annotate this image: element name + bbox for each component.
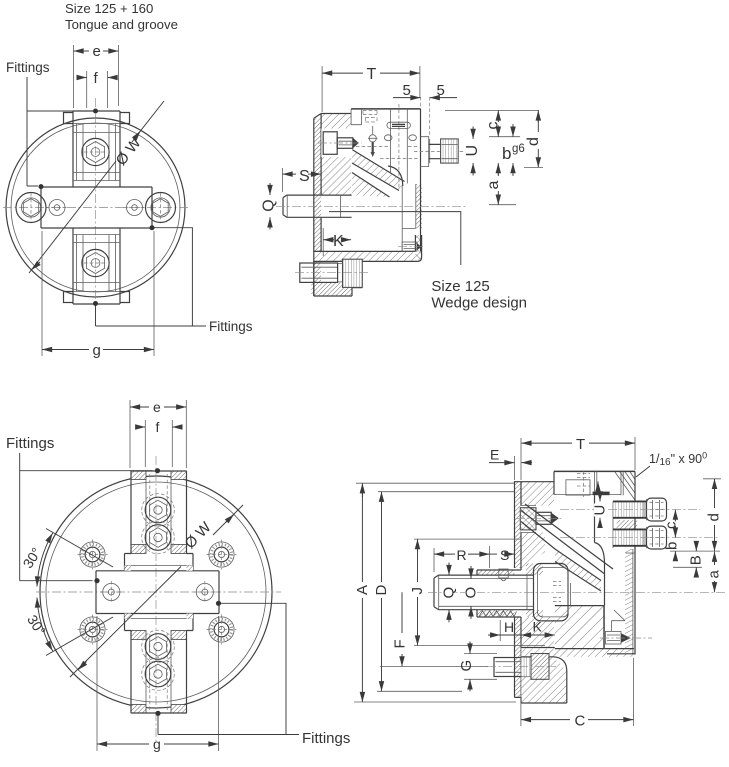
left small port bbox=[100, 581, 123, 603]
rod boss outline bbox=[477, 570, 521, 617]
chuck inner circle bbox=[11, 123, 180, 292]
dimension H bbox=[488, 619, 521, 641]
adapter hatch upper bbox=[521, 482, 554, 506]
adapter top edge bbox=[321, 113, 351, 115]
horizontal centerline bbox=[36, 591, 281, 593]
Fittings label bottom with leaders bbox=[155, 601, 350, 747]
piston hatch bits around nut bbox=[526, 564, 543, 576]
dimension D bbox=[373, 492, 514, 692]
chamfer fan top-right bbox=[615, 471, 636, 500]
svg-text:Tongue and groove: Tongue and groove bbox=[65, 17, 178, 32]
jaw slot stadium bbox=[387, 122, 411, 128]
dimension d bbox=[703, 479, 723, 551]
svg-text:b: b bbox=[664, 542, 681, 550]
chuck outer circle bbox=[40, 476, 272, 708]
vertical centerline bbox=[95, 98, 97, 318]
dimension e bbox=[130, 399, 186, 468]
dimension C bbox=[521, 641, 634, 730]
Fittings label top-left with leaders bbox=[6, 60, 98, 189]
wedge bar stub shaft bbox=[429, 144, 441, 158]
diameter W callout line bbox=[29, 101, 164, 273]
dimension T bbox=[322, 66, 420, 112]
svg-text:J: J bbox=[409, 587, 426, 595]
dimension F bbox=[380, 592, 488, 666]
svg-text:e: e bbox=[93, 43, 101, 60]
dimension c bbox=[445, 110, 539, 136]
dimension S bbox=[283, 168, 322, 192]
dimension T bbox=[521, 436, 635, 480]
bottom jaw bbox=[64, 228, 130, 304]
dimension E bbox=[489, 447, 532, 481]
Fittings label bottom-right with leaders bbox=[93, 225, 253, 334]
wedge bar threaded end bbox=[441, 139, 459, 163]
svg-text:F: F bbox=[392, 639, 409, 648]
guideway band bbox=[96, 571, 219, 614]
svg-text:Q: Q bbox=[441, 587, 458, 599]
svg-text:30°: 30° bbox=[19, 545, 44, 571]
svg-text:Fittings: Fittings bbox=[6, 435, 54, 452]
flange plate bbox=[515, 481, 522, 697]
chamfer note 1/16 x 90 bbox=[636, 451, 707, 478]
body top edge bbox=[351, 108, 420, 110]
flange foot outline bbox=[314, 261, 363, 296]
jaw guide hatch strip bbox=[416, 184, 422, 228]
between screws hatch bbox=[617, 520, 638, 532]
right mounting screw with hex socket bbox=[146, 193, 176, 223]
dimension B bbox=[673, 544, 705, 576]
svg-text:Fittings: Fittings bbox=[209, 319, 253, 334]
wedge body hatch band bbox=[555, 549, 601, 591]
jaw slot walls bbox=[391, 109, 408, 184]
bottom jaw outline bbox=[125, 614, 194, 714]
bottom plate outline bbox=[314, 235, 422, 261]
30 degree bolt lower-left bbox=[78, 615, 108, 645]
svg-text:H: H bbox=[504, 619, 514, 635]
dimension f bbox=[136, 419, 183, 467]
flange plate hatch bbox=[515, 481, 522, 568]
upper mounting bolt in adapter bbox=[318, 129, 362, 158]
dimension K bbox=[323, 228, 351, 256]
flange plate hatch bbox=[314, 118, 321, 295]
front face bbox=[634, 471, 636, 654]
upper mounting bolt bbox=[516, 506, 563, 533]
rod boss hatch bbox=[477, 570, 515, 575]
dimension e bbox=[74, 43, 119, 108]
horizontal centerline bbox=[3, 207, 190, 209]
bottom jaw dark corner inserts bbox=[131, 705, 146, 714]
wedge hatched band bbox=[352, 150, 405, 191]
dimension b g6 bbox=[502, 124, 525, 176]
top jaw outline bbox=[125, 471, 194, 571]
dimension d bbox=[524, 110, 543, 167]
svg-text:S: S bbox=[299, 168, 310, 185]
dimension U bbox=[592, 482, 609, 524]
dimension J bbox=[409, 539, 545, 645]
dimension c bbox=[663, 510, 680, 538]
svg-text:O: O bbox=[463, 587, 480, 599]
30 degree arc lower bbox=[37, 598, 53, 652]
svg-text:g: g bbox=[93, 342, 101, 359]
body lower-left big hatch block bbox=[555, 606, 604, 649]
slot window rect bbox=[566, 480, 590, 495]
svg-text:c: c bbox=[485, 122, 502, 130]
dimension U bbox=[464, 127, 481, 176]
dimension Q bbox=[261, 183, 278, 230]
svg-text:1/16" x 900: 1/16" x 900 bbox=[649, 451, 707, 469]
dimension g bbox=[97, 616, 219, 752]
body lower block outline bbox=[555, 606, 604, 649]
svg-text:f: f bbox=[94, 70, 99, 87]
svg-text:Fittings: Fittings bbox=[302, 730, 350, 747]
jaw mounting screw upper bbox=[560, 498, 700, 521]
svg-text:K: K bbox=[333, 233, 344, 250]
guideway band bbox=[41, 187, 152, 228]
jaw tongue fillet bbox=[388, 166, 403, 186]
jaw tongue and walls bbox=[595, 495, 605, 605]
30 degree radial lines bbox=[46, 529, 113, 568]
stub axis centerline bbox=[414, 151, 465, 153]
jaw stop screw detail bbox=[398, 242, 425, 251]
diameter W callout bbox=[70, 505, 243, 677]
main centerline bbox=[428, 591, 727, 593]
chuck inner circle bbox=[46, 482, 266, 702]
svg-text:a: a bbox=[485, 181, 502, 190]
svg-text:Wedge design: Wedge design bbox=[431, 295, 527, 312]
top jaw dark corner inserts bbox=[131, 471, 146, 480]
bottom jaw screws bbox=[142, 630, 175, 663]
right small port circle bbox=[124, 200, 146, 216]
bottom plate hatch bbox=[314, 251, 416, 261]
dimension b bbox=[664, 542, 721, 559]
svg-text:B: B bbox=[688, 555, 705, 565]
wedge slot lines bbox=[352, 150, 405, 198]
right small port bbox=[194, 581, 217, 603]
svg-text:A: A bbox=[354, 585, 371, 595]
svg-text:c: c bbox=[663, 521, 680, 529]
svg-text:D: D bbox=[373, 585, 390, 596]
adapter hatch lower bbox=[521, 617, 554, 648]
svg-text:C: C bbox=[575, 713, 586, 730]
body top bbox=[554, 470, 635, 472]
dimension Q bbox=[441, 563, 458, 623]
dimension f bbox=[77, 70, 117, 108]
top fitting dashes bbox=[577, 474, 590, 487]
coupling nut bbox=[534, 564, 569, 621]
svg-text:U: U bbox=[592, 505, 609, 516]
dimension g bbox=[42, 231, 154, 359]
body step below screws bbox=[626, 552, 635, 554]
svg-text:K: K bbox=[533, 619, 543, 635]
front face bbox=[420, 109, 422, 252]
left mounting screw with hex socket bbox=[16, 193, 46, 223]
top jaw bbox=[64, 111, 130, 187]
adapter hatch above rod bbox=[321, 114, 351, 196]
dimension S bbox=[490, 547, 515, 563]
bottom right steps bbox=[605, 606, 626, 649]
bottom plate outline bbox=[521, 648, 635, 704]
dimension K bbox=[521, 619, 555, 636]
jaw mounting screw lower bbox=[560, 526, 720, 549]
top fitting detail bbox=[356, 111, 419, 159]
Size 125 wedge design label bbox=[329, 212, 527, 312]
dimension a bbox=[485, 163, 516, 205]
flange foot hatch bbox=[311, 283, 352, 296]
svg-text:G: G bbox=[458, 660, 475, 672]
svg-text:E: E bbox=[490, 447, 499, 463]
spring below rod bbox=[479, 611, 517, 617]
G fitting bolt bbox=[487, 654, 556, 680]
svg-text:f: f bbox=[156, 419, 160, 435]
chuck outer circle bbox=[6, 118, 185, 297]
top jaw screws bbox=[142, 494, 175, 527]
wedge slot lines bbox=[521, 504, 613, 591]
svg-text:g: g bbox=[153, 736, 161, 752]
svg-text:b: b bbox=[502, 144, 511, 163]
vertical centerline bbox=[155, 456, 157, 741]
svg-text:e: e bbox=[153, 399, 161, 415]
draw rod bbox=[283, 195, 352, 217]
svg-text:T: T bbox=[367, 66, 377, 83]
svg-text:30°: 30° bbox=[24, 612, 49, 638]
guide strip hatch bbox=[625, 549, 633, 654]
draw rod bbox=[434, 575, 534, 610]
30 degree bolt lower-right bbox=[207, 615, 237, 645]
bottom jaw hex screw bbox=[82, 249, 109, 276]
bottom plate hatch bbox=[521, 649, 634, 657]
dimension O bbox=[463, 566, 480, 619]
svg-text:U: U bbox=[464, 145, 481, 157]
flange plate outline bbox=[314, 114, 321, 297]
lower jaw stop screw bbox=[600, 632, 652, 645]
top jaw hex screw bbox=[82, 138, 109, 165]
svg-text:g6: g6 bbox=[512, 143, 525, 155]
dimension A bbox=[354, 483, 516, 702]
svg-text:Size 125 + 160: Size 125 + 160 bbox=[65, 1, 153, 16]
svg-text:a: a bbox=[706, 570, 723, 579]
dimension R bbox=[434, 546, 490, 572]
30 degree bolt upper-right bbox=[207, 540, 237, 570]
svg-text:5: 5 bbox=[437, 82, 445, 99]
crosshatch strip right bbox=[415, 235, 421, 260]
lower wedge hatch triangle bbox=[352, 173, 390, 198]
svg-text:Fittings: Fittings bbox=[6, 60, 50, 75]
top notch bbox=[351, 109, 361, 125]
left small port circle bbox=[46, 200, 68, 216]
30 degree bolt upper-left bbox=[78, 540, 108, 570]
adapter top edge bbox=[515, 481, 555, 483]
dimension a bbox=[706, 552, 723, 593]
svg-text:Q: Q bbox=[261, 199, 278, 211]
svg-text:Size 125: Size 125 bbox=[431, 278, 489, 295]
svg-text:Ø W: Ø W bbox=[113, 134, 145, 169]
small pin on boss bbox=[499, 569, 508, 581]
svg-text:S: S bbox=[500, 547, 509, 563]
Fittings label left with leaders bbox=[6, 435, 160, 583]
front step block bbox=[421, 137, 430, 167]
dimension G bbox=[458, 642, 497, 692]
svg-text:R: R bbox=[457, 547, 467, 563]
main centerline bbox=[276, 205, 468, 207]
30 degree arc upper bbox=[37, 533, 53, 587]
top slot walls and dark band bbox=[595, 471, 624, 495]
lower mounting bolt bbox=[295, 259, 368, 287]
svg-text:5: 5 bbox=[403, 82, 411, 99]
svg-text:d: d bbox=[525, 137, 542, 146]
svg-text:d: d bbox=[706, 513, 723, 521]
dimension 5 5 bbox=[393, 82, 457, 99]
svg-text:T: T bbox=[576, 436, 585, 453]
foot hatch bbox=[521, 657, 567, 703]
